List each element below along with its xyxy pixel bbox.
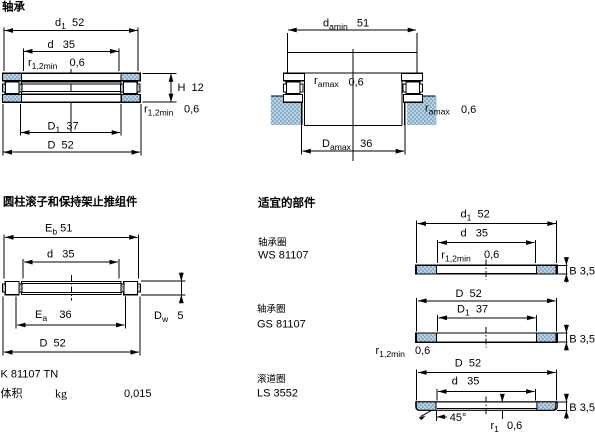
svg-text:B 3,5: B 3,5 [569, 402, 595, 414]
svg-text:45°: 45° [450, 412, 467, 424]
svg-text:0,6: 0,6 [70, 57, 85, 69]
svg-text:Dw 5: Dw 5 [154, 310, 183, 324]
svg-text:滚道圈: 滚道圈 [257, 373, 286, 385]
svg-text:0,6: 0,6 [507, 420, 522, 432]
svg-text:0,015: 0,015 [124, 388, 152, 400]
svg-text:d 35: d 35 [452, 376, 480, 388]
svg-text:Ea 36: Ea 36 [35, 309, 72, 323]
svg-text:B 3,5: B 3,5 [569, 265, 595, 277]
svg-text:H 12: H 12 [178, 82, 204, 94]
svg-text:GS 81107: GS 81107 [257, 319, 306, 331]
svg-text:K 81107 TN: K 81107 TN [1, 369, 59, 381]
svg-text:WS 81107: WS 81107 [258, 250, 309, 262]
svg-text:轴承圈: 轴承圈 [257, 303, 286, 315]
svg-text:适宜的部件: 适宜的部件 [258, 196, 316, 210]
svg-text:d 35: d 35 [48, 39, 76, 51]
svg-text:轴承: 轴承 [2, 0, 25, 14]
svg-text:D 52: D 52 [40, 338, 66, 350]
svg-text:LS 3552: LS 3552 [257, 388, 298, 400]
svg-text:Eb 51: Eb 51 [45, 223, 72, 237]
svg-text:0,6: 0,6 [484, 249, 499, 261]
svg-text:D 52: D 52 [48, 140, 74, 152]
svg-text:B 3,5: B 3,5 [569, 334, 595, 346]
svg-text:d1 52: d1 52 [461, 209, 490, 223]
svg-text:d1 52: d1 52 [55, 17, 84, 31]
svg-text:d 35: d 35 [461, 228, 489, 240]
svg-text:体积: 体积 [1, 386, 23, 400]
svg-text:D 52: D 52 [456, 288, 482, 300]
svg-text:D 52: D 52 [455, 358, 481, 370]
svg-text:kg: kg [55, 387, 67, 401]
svg-text:0,6: 0,6 [349, 77, 364, 89]
svg-text:0,6: 0,6 [184, 104, 199, 116]
svg-text:0,6: 0,6 [415, 345, 430, 357]
svg-text:圆柱滚子和保持架止推组件: 圆柱滚子和保持架止推组件 [3, 195, 137, 209]
svg-text:d 35: d 35 [47, 249, 75, 261]
svg-text:轴承圈: 轴承圈 [258, 237, 287, 249]
svg-text:0,6: 0,6 [461, 104, 476, 116]
svg-text:D1 37: D1 37 [457, 304, 488, 318]
